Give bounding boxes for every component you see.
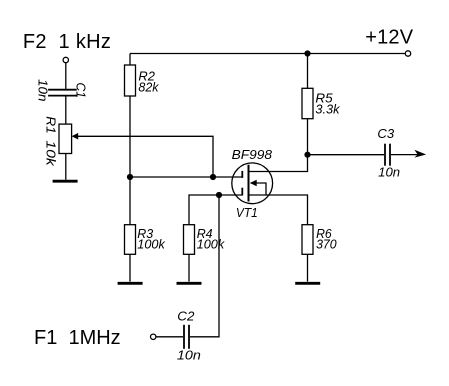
node junction R2/R3/gate2: [127, 174, 133, 180]
node junction gate1/C2: [216, 192, 222, 198]
wire R1 to ground: [65, 154, 67, 180]
svg-text:10n: 10n: [35, 79, 49, 101]
wire C1 to R1: [65, 96, 67, 124]
svg-text:VT1: VT1: [236, 206, 258, 220]
transistor VT1 channel line: [248, 165, 250, 202]
svg-text:10n: 10n: [177, 348, 201, 362]
svg-text:10k: 10k: [43, 140, 57, 166]
capacitor C2: [184, 325, 189, 349]
resistor R3 body: [125, 225, 136, 255]
terminal input F1: [151, 334, 156, 339]
node junction rail/R5: [304, 50, 310, 56]
svg-text:R1: R1: [43, 116, 57, 134]
wire terminal to C2: [156, 336, 183, 338]
transistor VT1 BF998 circle: [232, 163, 273, 204]
ground (R6): [295, 282, 320, 285]
wire R4 to ground: [188, 254, 190, 281]
wire C2 to gate1 node: [190, 195, 219, 337]
resistor R4 body: [184, 225, 195, 255]
wire terminal to C1: [65, 63, 67, 89]
resistor R2 body: [125, 65, 136, 96]
wire R6 to ground: [307, 254, 309, 281]
output arrow: [414, 150, 426, 158]
svg-text:F1 1MHz: F1 1MHz: [34, 327, 121, 349]
resistor R5 body: [302, 88, 313, 118]
wire source to R6: [249, 195, 308, 225]
transistor VT1 gate2 bar: [241, 171, 243, 178]
wire R2 bottom to R3 top: [129, 96, 131, 225]
node junction wiper/gate2: [210, 174, 216, 180]
wire C3 to output arrow: [391, 154, 419, 156]
wire R1 wiper to gate2 corner: [78, 136, 213, 177]
wire rail to R2: [129, 54, 131, 66]
wire gate2 lead: [130, 176, 242, 178]
potentiometer R1 body: [59, 124, 72, 153]
transistor VT1 substrate arrow: [250, 180, 257, 186]
ground (R4): [177, 282, 202, 285]
svg-text:+12V: +12V: [365, 26, 414, 48]
svg-text:BF998: BF998: [232, 148, 272, 162]
wire R5 to drain node: [307, 119, 309, 155]
capacitor C1: [48, 90, 77, 96]
svg-text:F2 1 kHz: F2 1 kHz: [23, 31, 111, 53]
svg-text:82k: 82k: [138, 81, 159, 95]
R1 wiper arrow: [72, 133, 79, 140]
ground (R1): [53, 180, 78, 183]
transistor VT1 gate1 bar: [241, 188, 243, 196]
resistor R6 body: [302, 225, 313, 255]
capacitor C3: [385, 144, 390, 166]
svg-text:370: 370: [316, 237, 337, 251]
svg-text:3.3k: 3.3k: [315, 103, 340, 117]
svg-text:C2: C2: [177, 309, 194, 323]
svg-text:10n: 10n: [378, 166, 400, 180]
wire drain to C3 rail: [249, 155, 308, 172]
ground (R3): [118, 282, 143, 285]
wire rail to R5: [307, 54, 309, 89]
terminal input F2: [63, 57, 68, 62]
wire drain node to C3: [308, 154, 385, 156]
wire +12V rail: [130, 53, 405, 55]
svg-text:100k: 100k: [137, 237, 165, 251]
svg-text:C3: C3: [377, 127, 394, 141]
svg-text:100k: 100k: [197, 237, 225, 251]
wire gate1 lead from R4: [189, 195, 242, 225]
node junction R5/drain/C3: [304, 152, 310, 158]
svg-text:C1: C1: [73, 83, 87, 99]
terminal +12V: [405, 51, 410, 56]
wire R3 to ground: [129, 254, 131, 281]
